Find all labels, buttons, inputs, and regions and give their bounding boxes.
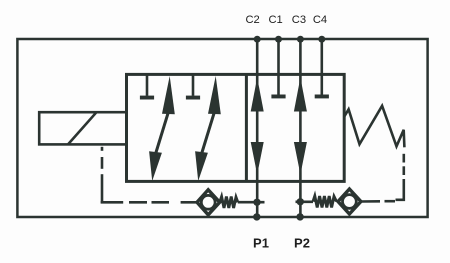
svg-text:P1: P1	[253, 236, 269, 251]
svg-text:C2: C2	[245, 14, 259, 26]
svg-text:C1: C1	[268, 14, 282, 26]
svg-text:C3: C3	[292, 14, 306, 26]
svg-text:C4: C4	[313, 14, 327, 26]
svg-text:P2: P2	[294, 236, 310, 251]
